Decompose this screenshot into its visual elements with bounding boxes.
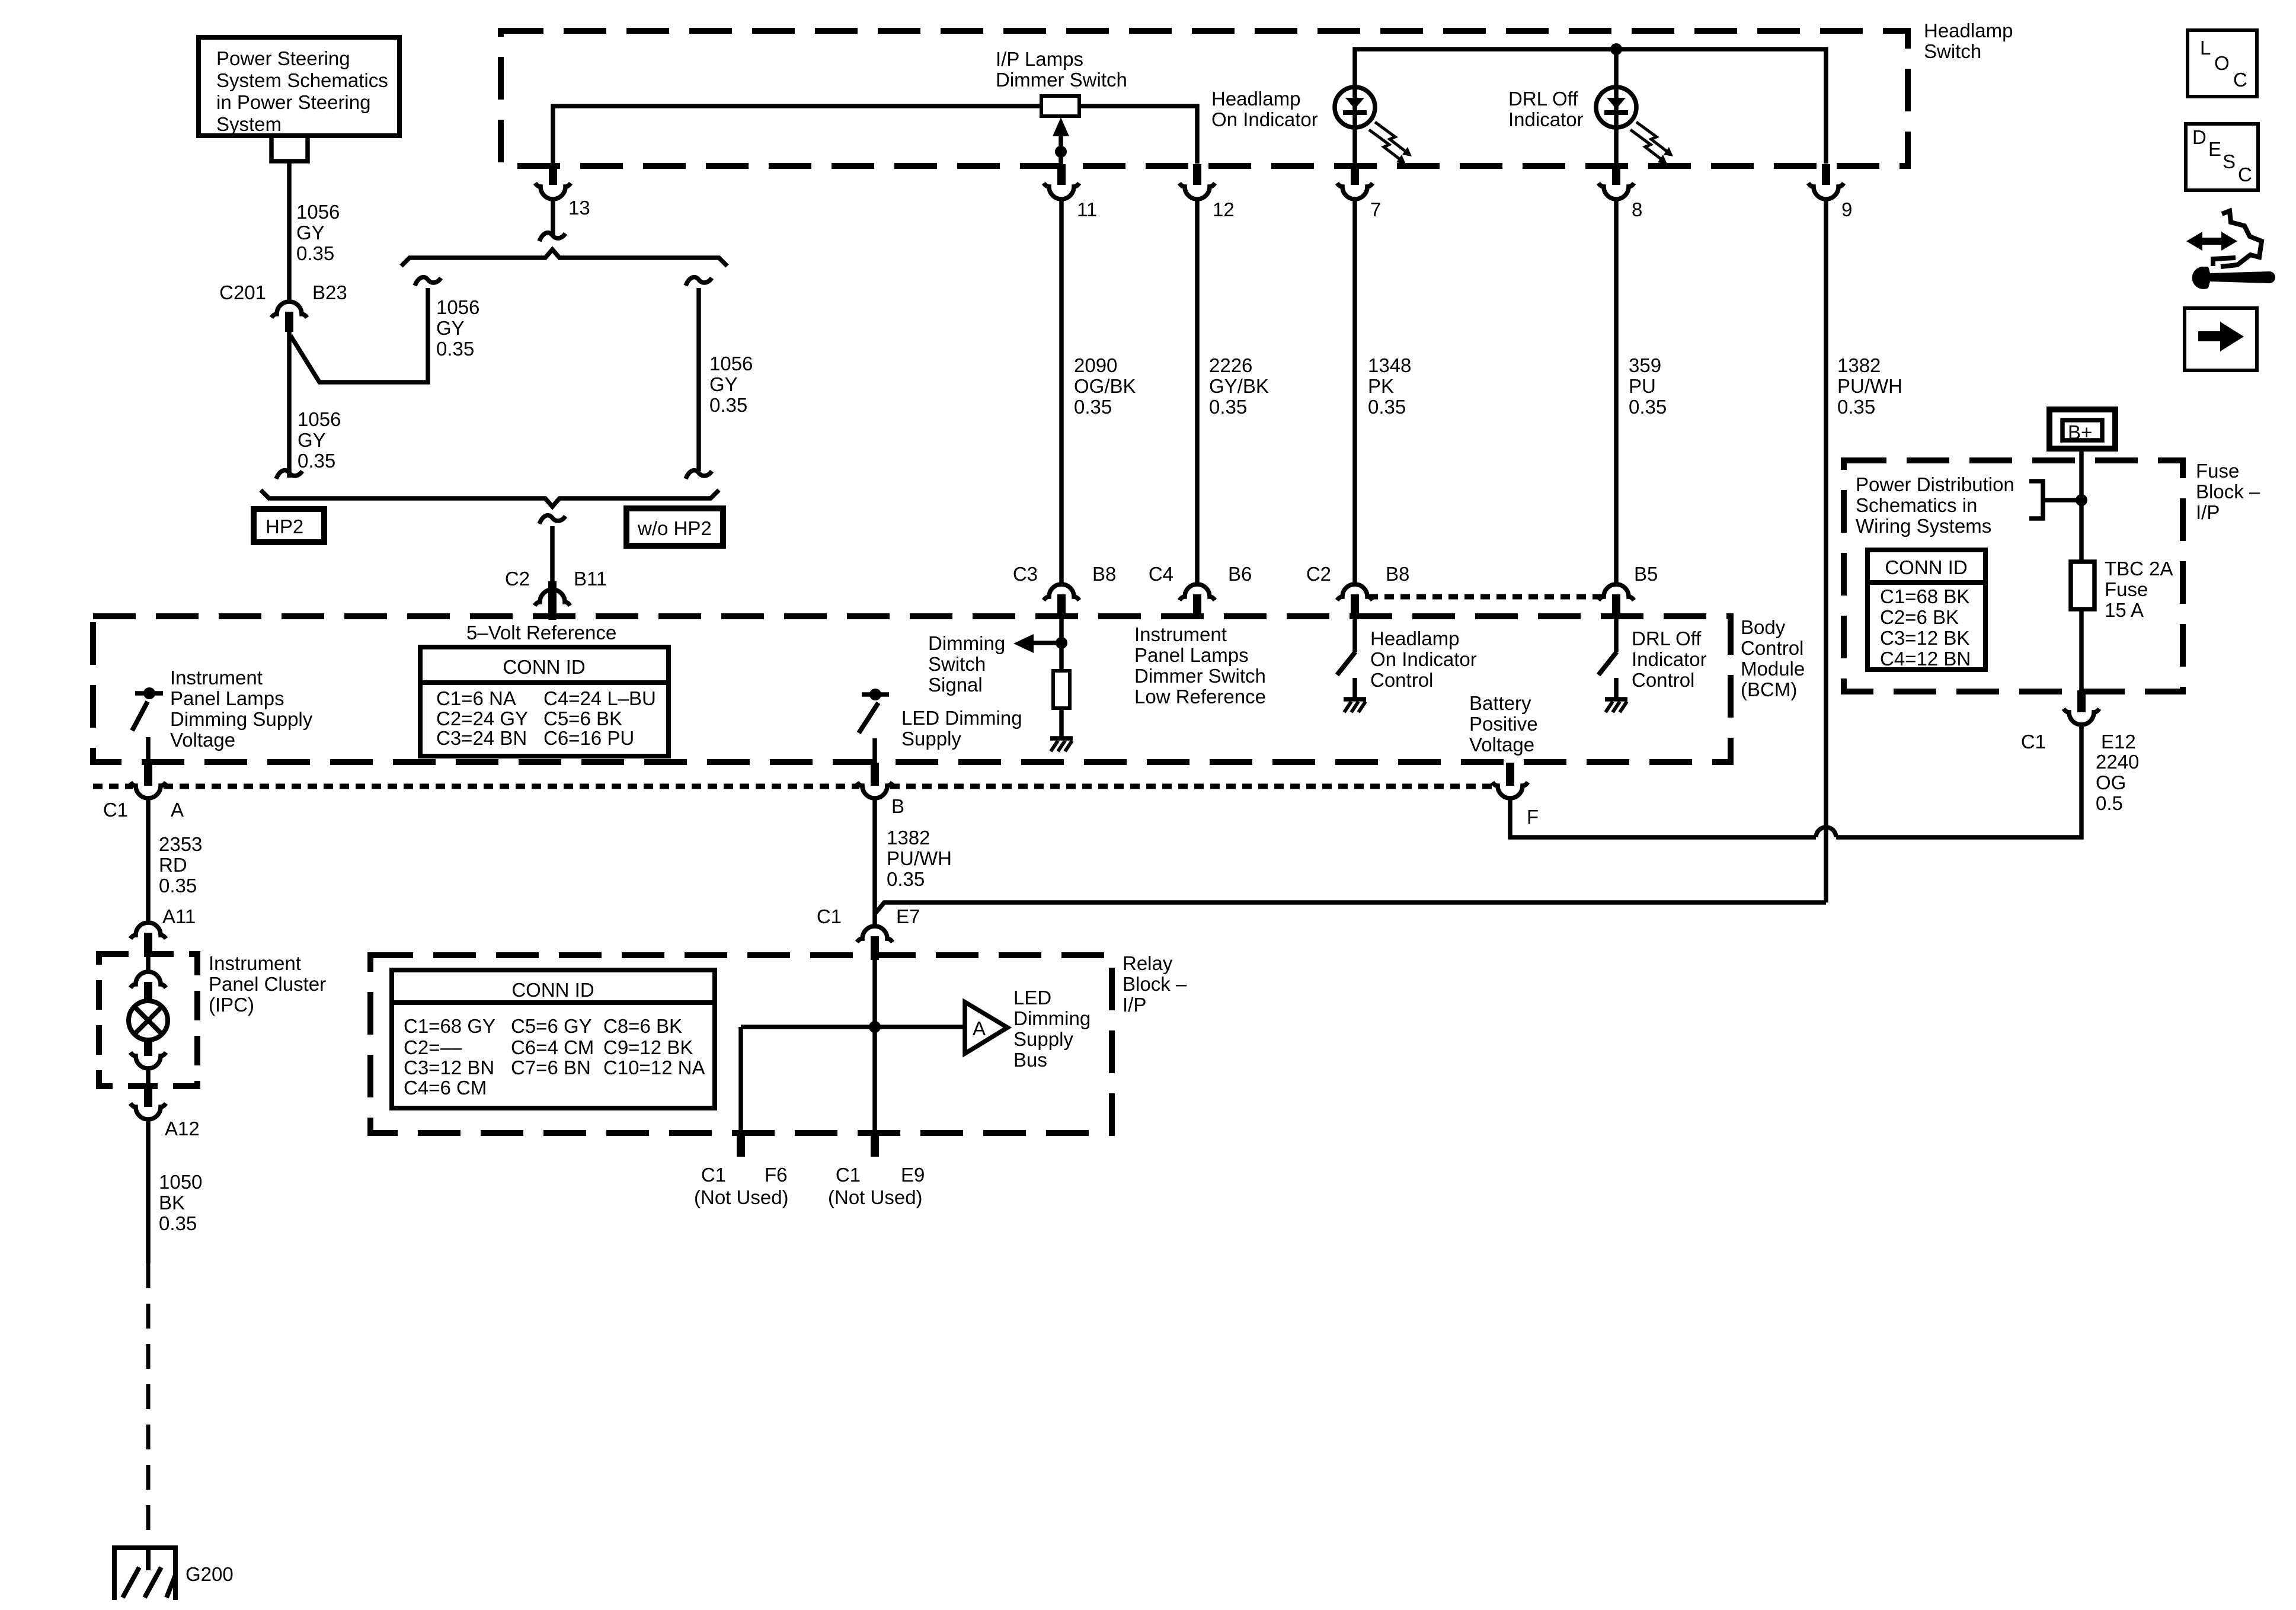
pin 9 of headlamp switch (1808, 164, 1852, 220)
wire: resistor to ground (1059, 708, 1064, 737)
wire: pin 7 to BCM B8 (1348 PK) (1352, 199, 1357, 584)
label wire 1056 GY 0.35 (below C201) (298, 408, 341, 472)
label wire 1056 GY 0.35 (left option) (436, 296, 479, 360)
label Headlamp Switch (1924, 20, 2013, 62)
svg-text:in Power Steering: in Power Steering (216, 91, 370, 113)
connector C1 pin E12 (2021, 690, 2136, 753)
wire: A12 down (1050 BK) (146, 1119, 151, 1263)
label wire 2240 OG 0.5 (2096, 751, 2139, 814)
svg-text:Dimmer Switch: Dimmer Switch (1134, 665, 1266, 687)
svg-text:0.35: 0.35 (1837, 396, 1875, 418)
buffer triangle A: LED Dimming Supply Bus (965, 1002, 1008, 1054)
svg-text:2226: 2226 (1209, 354, 1252, 376)
wire: battery feed run to pin F (1510, 798, 1816, 837)
svg-text:CONN ID: CONN ID (1885, 556, 1967, 578)
pin C4/B6 into BCM (1149, 563, 1252, 617)
svg-text:Control: Control (1741, 637, 1803, 659)
upper option brace under pin 13 (401, 249, 727, 266)
pin C1/E9 (Not Used) (828, 1133, 925, 1208)
pin B5 into BCM (DRL off indicator control) (1598, 563, 1658, 617)
reference box: Power Steering System Schematics (199, 37, 399, 136)
rheostat I/P lamps dimmer switch (1041, 96, 1079, 116)
icon: adjust/repair (arrow and wrench) (2186, 211, 2275, 289)
svg-text:F: F (1527, 806, 1539, 828)
wire: pin 12 to BCM B6 (2226 GY/BK) (1195, 199, 1200, 584)
svg-text:C5=6 GY: C5=6 GY (511, 1015, 592, 1037)
wiper arrow of dimmer switch (1053, 117, 1069, 166)
component box: Fuse Block I/P (dashed) (1844, 460, 2183, 692)
svg-text:Signal: Signal (928, 674, 983, 696)
connector C1 pin E7 (817, 905, 920, 960)
svg-text:Switch: Switch (1924, 40, 1981, 62)
svg-text:7: 7 (1370, 199, 1381, 220)
svg-text:0.35: 0.35 (709, 394, 747, 416)
svg-text:GY: GY (436, 317, 465, 339)
label Instrument Panel Lamps Dimmer Switch Low Reference (1134, 623, 1266, 708)
wire: reference box to C201 (1056 GY) (287, 161, 292, 302)
label Headlamp On Indicator Control (1370, 628, 1477, 691)
LED light rays (Headlamp On) (1369, 122, 1412, 164)
ground inside BCM (dimmer signal) (1050, 738, 1073, 751)
switch: LED Dimming Supply (859, 689, 889, 763)
pin 11 of headlamp switch (1044, 164, 1097, 220)
svg-text:15 A: 15 A (2105, 599, 2144, 621)
LED light rays (DRL Off) (1630, 122, 1673, 164)
svg-text:B: B (891, 795, 904, 817)
svg-text:(IPC): (IPC) (209, 994, 254, 1016)
wire: branch from pin 9 joining B wire above E7 (875, 902, 1826, 913)
svg-text:Voltage: Voltage (170, 729, 235, 751)
svg-text:A: A (973, 1017, 986, 1039)
wire: B8 to resistor (1059, 617, 1064, 671)
pin 7 of headlamp switch (1337, 164, 1381, 220)
connector pin A11 (130, 905, 196, 953)
connector face line C2 of BCM (dotted) (1368, 594, 1603, 600)
svg-text:C2: C2 (505, 568, 530, 590)
svg-text:5–Volt Reference: 5–Volt Reference (466, 622, 616, 644)
svg-text:OG: OG (2096, 772, 2126, 793)
label Headlamp On Indicator (1211, 88, 1318, 130)
svg-text:C10=12 NA: C10=12 NA (603, 1057, 705, 1078)
svg-text:C2=24 GY: C2=24 GY (436, 708, 528, 729)
svg-text:D: D (2192, 126, 2207, 148)
svg-text:0.35: 0.35 (298, 450, 335, 472)
svg-text:E9: E9 (901, 1164, 925, 1186)
svg-text:C7=6 BN: C7=6 BN (511, 1057, 591, 1078)
ground inside BCM (headlamp on indicator) (1344, 699, 1366, 712)
svg-text:Dimming: Dimming (928, 632, 1005, 654)
svg-text:PU/WH: PU/WH (1837, 375, 1902, 397)
svg-text:LED Dimming: LED Dimming (901, 707, 1022, 729)
svg-text:C1: C1 (836, 1164, 861, 1186)
svg-text:0.35: 0.35 (296, 242, 334, 264)
CONN ID table of BCM (420, 647, 669, 756)
wire: branch down to E9 (not used) (872, 1027, 877, 1133)
svg-text:0.35: 0.35 (1074, 396, 1112, 418)
label Battery Positive Voltage (1469, 692, 1538, 756)
svg-text:PK: PK (1368, 375, 1394, 397)
hook at bottom of pin 13 wire (539, 233, 565, 241)
svg-text:A: A (171, 799, 184, 821)
svg-text:Power Steering: Power Steering (216, 47, 350, 69)
svg-text:C1=68 GY: C1=68 GY (404, 1015, 495, 1037)
svg-text:Instrument: Instrument (170, 667, 263, 689)
svg-text:PU: PU (1629, 375, 1656, 397)
svg-text:C6=16 PU: C6=16 PU (543, 727, 634, 749)
CONN ID table of relay block (392, 970, 715, 1108)
wire: pin B down to C1/E7 (1382 PU/WH) (872, 798, 877, 926)
label Instrument Panel Lamps Dimming Supply Voltage (170, 667, 313, 751)
svg-text:DRL Off: DRL Off (1508, 88, 1578, 110)
svg-text:w/o HP2: w/o HP2 (637, 517, 712, 539)
svg-text:Headlamp: Headlamp (1924, 20, 2013, 41)
switch: DRL Off Indicator Control (1598, 617, 1617, 698)
label Dimming Switch Signal (928, 632, 1005, 696)
svg-text:C5=6 BK: C5=6 BK (543, 708, 622, 729)
svg-text:12: 12 (1213, 199, 1235, 220)
svg-text:Module: Module (1741, 658, 1805, 680)
pin 8 of headlamp switch (1598, 164, 1642, 220)
svg-text:C2=6 BK: C2=6 BK (1880, 606, 1959, 628)
power symbol B+ (2049, 409, 2115, 449)
label DRL Off Indicator Control (1632, 628, 1707, 691)
icon box DESC (2186, 124, 2258, 190)
wire: branch down to F6 (not used) (738, 1027, 743, 1133)
ground inside BCM (DRL off indicator) (1605, 699, 1627, 712)
lamp socket connector inside IPC (130, 972, 166, 1001)
svg-text:0.5: 0.5 (2096, 792, 2123, 814)
svg-text:0.35: 0.35 (1209, 396, 1247, 418)
svg-text:Instrument: Instrument (1134, 623, 1227, 645)
svg-text:1382: 1382 (887, 827, 930, 849)
wire: pin 13 to option split (551, 199, 555, 235)
svg-text:RD: RD (159, 854, 187, 876)
hook at bottom of right option wire (686, 470, 712, 479)
svg-text:I/P Lamps: I/P Lamps (996, 48, 1083, 70)
svg-text:Indicator: Indicator (1632, 648, 1707, 670)
component box: Body Control Module BCM (dashed) (93, 616, 1731, 762)
svg-text:B23: B23 (312, 281, 347, 303)
hook at bottom of left option wire (276, 470, 302, 479)
svg-text:Battery: Battery (1469, 692, 1531, 714)
svg-text:G200: G200 (186, 1563, 234, 1585)
svg-text:F6: F6 (765, 1164, 788, 1186)
svg-text:Block –: Block – (1123, 973, 1187, 995)
svg-text:C1=68 BK: C1=68 BK (1880, 585, 1969, 607)
wire: lower brace to C2/B11 (550, 526, 555, 590)
svg-text:Schematics in: Schematics in (1856, 494, 1977, 516)
pin B of BCM connector C1 (857, 763, 904, 817)
svg-text:Power Distribution: Power Distribution (1856, 473, 2014, 495)
label Instrument Panel Cluster (IPC) (209, 952, 326, 1016)
svg-text:B+: B+ (2068, 421, 2092, 443)
wire: right option (w/o HP2) 1056 GY (696, 288, 701, 471)
svg-text:O: O (2214, 52, 2230, 74)
svg-text:2090: 2090 (1074, 354, 1117, 376)
svg-text:C3=24 BN: C3=24 BN (436, 727, 527, 749)
svg-text:Fuse: Fuse (2105, 578, 2148, 600)
pin A of BCM connector C1 (103, 763, 184, 821)
svg-text:1056: 1056 (296, 201, 340, 223)
label LED Dimming Supply (901, 707, 1022, 750)
svg-text:C1: C1 (103, 799, 128, 821)
svg-text:On Indicator: On Indicator (1211, 108, 1318, 130)
bracket connector under reference box (271, 138, 308, 161)
wire: A11 into IPC (146, 953, 151, 972)
switch: Headlamp On Indicator Control (1337, 617, 1355, 698)
label Body Control Module (BCM) (1741, 616, 1805, 700)
icon box forward arrow (2185, 308, 2257, 370)
LED DRL Off Indicator (1596, 49, 1636, 165)
svg-text:OG/BK: OG/BK (1074, 375, 1136, 397)
svg-text:Relay: Relay (1123, 952, 1173, 974)
connector pin A12 (130, 1087, 200, 1140)
svg-text:E7: E7 (896, 905, 920, 927)
svg-text:1382: 1382 (1837, 354, 1881, 376)
svg-text:0.35: 0.35 (159, 875, 197, 897)
svg-text:C4=24 L–BU: C4=24 L–BU (543, 687, 656, 709)
pin B11 into BCM (548, 581, 557, 617)
label LED Dimming Supply Bus (1013, 987, 1091, 1071)
component box: Relay Block I/P (dashed) (370, 955, 1112, 1133)
option tag box w/o HP2 (626, 508, 723, 546)
svg-text:Supply: Supply (901, 728, 961, 750)
fuse TBC 2A 15 A (2071, 562, 2094, 692)
switch: Instrument Panel Lamps Dimming Supply Voltage (132, 687, 163, 763)
svg-text:B11: B11 (574, 568, 607, 590)
svg-text:Control: Control (1632, 669, 1694, 691)
wire: bus junction to triangle A (741, 1025, 965, 1029)
lamp socket lower connector inside IPC (130, 1039, 166, 1087)
svg-text:C4: C4 (1149, 563, 1173, 585)
svg-text:S: S (2223, 151, 2236, 172)
arrow: Dimming Switch Signal (1013, 634, 1061, 653)
svg-text:Instrument: Instrument (209, 952, 301, 974)
wire: pin 11 to BCM B8 (2090 OG/BK) (1059, 199, 1064, 584)
label wire 1382 PU/WH 0.35 (887, 827, 952, 890)
wire: dashed ground run to G200 (146, 1263, 151, 1548)
svg-text:B6: B6 (1228, 563, 1252, 585)
svg-text:C1: C1 (701, 1164, 726, 1186)
svg-text:2353: 2353 (159, 833, 202, 855)
hook at top of left option wire (415, 277, 441, 286)
svg-text:GY: GY (709, 373, 738, 395)
svg-text:PU/WH: PU/WH (887, 847, 952, 869)
svg-text:CONN ID: CONN ID (511, 979, 594, 1001)
svg-text:2240: 2240 (2096, 751, 2139, 773)
wire: pin A to A11 (2353 RD) (146, 798, 151, 923)
svg-text:Body: Body (1741, 616, 1786, 638)
svg-text:0.35: 0.35 (887, 868, 925, 890)
svg-text:E: E (2208, 138, 2221, 160)
svg-text:9: 9 (1841, 199, 1852, 220)
svg-text:GY: GY (296, 222, 325, 244)
svg-text:C8=6 BK: C8=6 BK (603, 1015, 682, 1037)
svg-text:DRL Off: DRL Off (1632, 628, 1702, 649)
wire: dimmer feed inside headlamp switch (553, 106, 1041, 164)
label wire 1056 GY 0.35 (upper) (296, 201, 340, 264)
svg-text:E12: E12 (2101, 731, 2136, 753)
svg-text:C1: C1 (817, 905, 842, 927)
label wire 359 PU 0.35 (1629, 354, 1667, 418)
label wire 1348 PK 0.35 (1368, 354, 1411, 418)
svg-text:Wiring Systems: Wiring Systems (1856, 515, 1991, 537)
svg-text:System Schematics: System Schematics (216, 69, 388, 91)
svg-text:(BCM): (BCM) (1741, 678, 1797, 700)
wire: pin 8 to BCM B5 (359 PU) (1614, 199, 1619, 584)
svg-text:Headlamp: Headlamp (1370, 628, 1459, 649)
svg-text:I/P: I/P (2196, 501, 2220, 523)
svg-text:Fuse: Fuse (2196, 460, 2239, 482)
svg-text:B8: B8 (1092, 563, 1116, 585)
label Fuse Block - I/P (2196, 460, 2260, 523)
resistor inside BCM (1053, 671, 1070, 708)
svg-text:1056: 1056 (709, 353, 753, 375)
svg-text:LED: LED (1013, 987, 1051, 1009)
svg-text:BK: BK (159, 1192, 185, 1214)
svg-text:Supply: Supply (1013, 1028, 1073, 1050)
label Power Distribution Schematics in Wiring Systems (1856, 473, 2014, 537)
svg-text:Indicator: Indicator (1508, 108, 1584, 130)
wire: E7 into relay block (872, 960, 877, 1027)
svg-text:(Not Used): (Not Used) (694, 1186, 789, 1208)
svg-text:Dimmer Switch: Dimmer Switch (996, 69, 1127, 91)
svg-text:C: C (2238, 164, 2252, 185)
svg-text:Voltage: Voltage (1469, 734, 1534, 756)
ground G200 (112, 1545, 234, 1600)
wire: C201 down to HP2 option split (1056 GY) (287, 332, 292, 478)
wire: pin 9 down right side (1382 PU/WH) (1824, 199, 1828, 902)
wire: rheostat to pin 12 drop (1079, 106, 1197, 164)
svg-text:Block –: Block – (2196, 481, 2260, 502)
label TBC 2A Fuse 15 A (2105, 558, 2173, 621)
svg-text:Panel Lamps: Panel Lamps (1134, 644, 1249, 666)
label DRL Off Indicator (1508, 88, 1584, 130)
label wire 2090 OG/BK 0.35 (1074, 354, 1136, 418)
pin 12 of headlamp switch (1179, 164, 1235, 220)
svg-text:C1: C1 (2021, 731, 2046, 753)
svg-text:CONN ID: CONN ID (503, 656, 585, 678)
lamp: instrument panel illumination (129, 1001, 168, 1040)
svg-text:A11: A11 (162, 905, 196, 927)
svg-text:C3: C3 (1013, 563, 1038, 585)
junction node dimming switch signal (1056, 637, 1067, 649)
connector C201 pin B23 (219, 281, 347, 332)
label wire 1382 PU/WH 0.35 (1837, 354, 1902, 418)
svg-text:1348: 1348 (1368, 354, 1411, 376)
svg-text:0.35: 0.35 (436, 338, 474, 360)
svg-text:0.35: 0.35 (1629, 396, 1667, 418)
wire: C201 branch diagonal to upper option brace (290, 288, 428, 382)
connector face line C1 of BCM (dotted) (93, 784, 1495, 789)
hook below lower brace (539, 516, 565, 524)
svg-text:C9=12 BK: C9=12 BK (603, 1036, 693, 1058)
label I/P Lamps Dimmer Switch (996, 48, 1127, 91)
svg-text:C1=6 NA: C1=6 NA (436, 687, 516, 709)
svg-text:L: L (2200, 37, 2211, 59)
svg-text:1056: 1056 (436, 296, 479, 318)
svg-text:I/P: I/P (1123, 994, 1146, 1016)
svg-text:System: System (216, 113, 282, 135)
svg-text:B8: B8 (1386, 563, 1409, 585)
svg-text:Dimming Supply: Dimming Supply (170, 708, 313, 730)
svg-text:8: 8 (1632, 199, 1642, 220)
svg-text:0.35: 0.35 (159, 1212, 197, 1234)
junction node LED dimming supply bus (869, 1021, 881, 1033)
svg-text:Panel Cluster: Panel Cluster (209, 973, 326, 995)
svg-text:TBC 2A: TBC 2A (2105, 558, 2173, 580)
svg-text:B5: B5 (1634, 563, 1658, 585)
LED Headlamp On Indicator (1335, 86, 1375, 165)
svg-text:0.35: 0.35 (1368, 396, 1406, 418)
wire hop over pin 9 run (1816, 827, 1836, 837)
label wire 1056 GY 0.35 (right option) (709, 353, 753, 416)
svg-text:C: C (2233, 69, 2247, 91)
svg-text:GY: GY (298, 429, 326, 451)
pin C2/B8 into BCM (headlamp on indicator control) (1306, 563, 1410, 617)
CONN ID table of fuse block (1868, 550, 1985, 670)
svg-text:Panel Lamps: Panel Lamps (170, 687, 284, 709)
svg-text:C3=12 BK: C3=12 BK (1880, 627, 1969, 649)
label Relay Block - I/P (1123, 952, 1187, 1016)
junction node on indicator feed (1610, 43, 1622, 55)
hook at top of right option wire (686, 277, 712, 286)
pin C1/F6 (Not Used) (694, 1133, 789, 1208)
connector C2 pin B11 (505, 568, 607, 620)
label wire 2226 GY/BK 0.35 (1209, 354, 1269, 418)
svg-text:Positive: Positive (1469, 713, 1538, 735)
lower option brace above C2/B11 (261, 490, 719, 507)
svg-text:A12: A12 (165, 1118, 200, 1140)
svg-text:11: 11 (1077, 199, 1097, 220)
svg-text:Dimming: Dimming (1013, 1007, 1091, 1029)
option tag box HP2 (254, 509, 324, 542)
svg-text:C3=12 BN: C3=12 BN (404, 1057, 494, 1078)
svg-text:GY/BK: GY/BK (1209, 375, 1269, 397)
bracket: power distribution reference (2029, 481, 2087, 518)
svg-text:Low Reference: Low Reference (1134, 686, 1266, 708)
svg-text:C2: C2 (1306, 563, 1331, 585)
pin C3/B8 into BCM (dimmer switch signal) (1013, 563, 1117, 617)
svg-text:Control: Control (1370, 669, 1433, 691)
wire: E12 down to battery feed run (1836, 725, 2081, 837)
svg-text:359: 359 (1629, 354, 1661, 376)
svg-text:C4=6 CM: C4=6 CM (404, 1077, 487, 1099)
label wire 1050 BK 0.35 (159, 1171, 202, 1234)
wire: B+ to fuse (2079, 449, 2084, 562)
svg-text:HP2: HP2 (266, 516, 303, 537)
wire: indicator feed inside headlamp switch (1355, 49, 1826, 164)
svg-text:C201: C201 (219, 281, 266, 303)
svg-text:C6=4 CM: C6=4 CM (511, 1036, 594, 1058)
svg-text:(Not Used): (Not Used) (828, 1186, 923, 1208)
svg-text:1050: 1050 (159, 1171, 202, 1193)
component box: Headlamp Switch (dashed) (501, 31, 1908, 166)
svg-text:Switch: Switch (928, 653, 986, 675)
svg-text:Bus: Bus (1013, 1049, 1047, 1071)
svg-text:On Indicator: On Indicator (1370, 648, 1477, 670)
icon box LOC (2188, 30, 2257, 97)
svg-text:C2=––: C2=–– (404, 1036, 462, 1058)
svg-text:13: 13 (568, 197, 590, 219)
component box: Instrument Panel Cluster IPC (dashed) (99, 954, 197, 1086)
pin F of BCM connector C1 (1492, 763, 1539, 828)
pin 13 of headlamp switch (535, 164, 590, 219)
svg-text:Headlamp: Headlamp (1211, 88, 1300, 110)
label wire 2353 RD 0.35 (159, 833, 202, 897)
svg-text:C4=12 BN: C4=12 BN (1880, 648, 1971, 670)
svg-text:1056: 1056 (298, 408, 341, 430)
